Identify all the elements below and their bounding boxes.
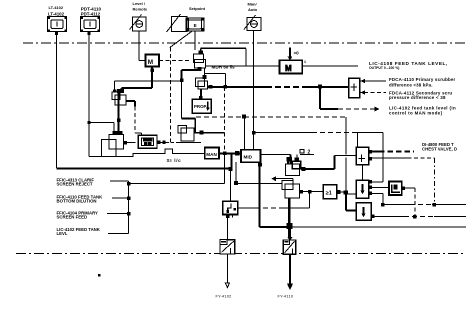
svg-text:MID: MID (244, 154, 253, 159)
svg-text:CHEST VALVE, D: CHEST VALVE, D (422, 147, 457, 152)
svg-text:Remote: Remote (133, 7, 148, 12)
svg-text:pressure difference < 38: pressure difference < 38 (389, 95, 446, 100)
svg-text:FY-4110: FY-4110 (278, 295, 294, 299)
svg-text:PDT-4112: PDT-4112 (81, 12, 101, 17)
svg-text:LT-4102: LT-4102 (49, 5, 64, 10)
svg-text:≥1: ≥1 (326, 191, 332, 197)
svg-text:SCREEN REJECT: SCREEN REJECT (57, 182, 93, 187)
svg-text:control to MAN mode): control to MAN mode) (389, 110, 443, 115)
svg-text:SI l/c: SI l/c (167, 158, 182, 163)
svg-text:difference <38 kPa.: difference <38 kPa. (389, 82, 433, 87)
svg-text:MDH 50 l/s: MDH 50 l/s (212, 65, 236, 70)
svg-text:LEVL: LEVL (57, 231, 68, 236)
svg-text:BOTTOM DILUTION: BOTTOM DILUTION (57, 198, 97, 203)
svg-text:Auto: Auto (248, 7, 258, 12)
svg-text:PROP: PROP (194, 104, 207, 109)
svg-text:Setpoint: Setpoint (189, 6, 206, 11)
svg-text:M: M (285, 64, 292, 73)
svg-text:Man/: Man/ (248, 2, 258, 7)
svg-text:FY-4102: FY-4102 (216, 295, 232, 299)
svg-text:Level /: Level / (133, 1, 146, 6)
svg-text:LT-4102: LT-4102 (48, 11, 65, 16)
svg-text:>0: >0 (294, 51, 300, 56)
svg-text:OUTPUT 0...100 %): OUTPUT 0...100 %) (369, 66, 399, 70)
svg-text:M: M (148, 59, 153, 66)
svg-text:FDCA-4110 Primary scrubber: FDCA-4110 Primary scrubber (389, 77, 456, 82)
svg-text:E: E (194, 23, 197, 28)
svg-text:SCREEN FEED: SCREEN FEED (57, 214, 88, 219)
svg-text:MAN: MAN (206, 152, 217, 157)
